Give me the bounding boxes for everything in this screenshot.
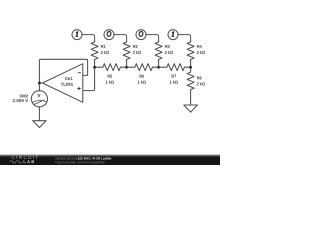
wire plus input to ladder node [83, 67, 95, 90]
label R7 [172, 75, 177, 78]
label OA1 [65, 77, 73, 80]
label input value 0 [107, 31, 112, 37]
voltmeter VM2 [31, 91, 47, 107]
wire output to voltmeter [38, 83, 40, 91]
footer title [78, 157, 112, 159]
label R8 value [197, 82, 205, 85]
wire output stub [39, 82, 42, 84]
op-amp plus symbol [77, 87, 80, 90]
voltmeter scale arc [33, 101, 47, 103]
label VM2 [19, 95, 28, 98]
resistor R3 [155, 42, 162, 67]
node ladder junction 1 [93, 66, 96, 69]
label R4 value [197, 51, 205, 54]
node ladder junction 2 [125, 66, 128, 69]
ground left [33, 121, 46, 128]
logo LAB [24, 160, 35, 163]
footer bar [0, 156, 220, 165]
label VM2 value [13, 99, 28, 102]
digital input V1 [72, 30, 82, 40]
resistor R6 [127, 64, 159, 71]
label R2 [133, 45, 138, 48]
label R1 [101, 45, 106, 48]
node ladder junction 3 [157, 66, 160, 69]
label R6 [140, 75, 145, 78]
wire voltmeter to ground [38, 107, 40, 121]
resistor R4 [187, 42, 194, 67]
label R3 [165, 45, 170, 48]
resistor R5 [95, 64, 127, 71]
label input value 1 [171, 31, 174, 36]
label R7 value [170, 80, 178, 83]
logo CIRCUIT [12, 156, 38, 159]
op-amp minus symbol [78, 72, 81, 74]
wire input 4 to R4 [178, 35, 191, 42]
label R6 value [138, 80, 146, 83]
footer author [56, 157, 80, 160]
op-amp OA1 triangle [43, 64, 83, 103]
label TL081 [61, 83, 73, 86]
resistor R2 [123, 42, 130, 67]
node ladder junction 4 [189, 66, 192, 69]
resistor R7 [159, 64, 191, 71]
label input value 0 [139, 31, 144, 37]
label R5 [108, 75, 113, 78]
label R8 [197, 76, 202, 79]
label voltmeter V [37, 94, 40, 97]
logo waveform [10, 161, 22, 164]
wire input 2 to R2 [114, 35, 127, 42]
label input value 1 [75, 31, 78, 36]
digital input V2 [104, 30, 114, 40]
footer url [56, 161, 105, 164]
label R4 [197, 45, 202, 48]
resistor R8 [187, 67, 194, 105]
wire input 1 to R1 [82, 35, 95, 42]
label R2 value [133, 51, 141, 54]
resistor R1 [91, 42, 98, 67]
label R1 value [101, 51, 109, 54]
ground right [184, 105, 198, 112]
voltmeter needle [34, 100, 44, 105]
wire feedback output to minus input [39, 59, 87, 83]
node output junction [38, 82, 41, 85]
wire input 3 to R3 [146, 35, 159, 42]
digital input V4 [168, 30, 178, 40]
label R3 value [165, 51, 173, 54]
footer fade strip [0, 154, 220, 156]
digital input V3 [136, 30, 146, 40]
label R5 value [106, 80, 114, 83]
